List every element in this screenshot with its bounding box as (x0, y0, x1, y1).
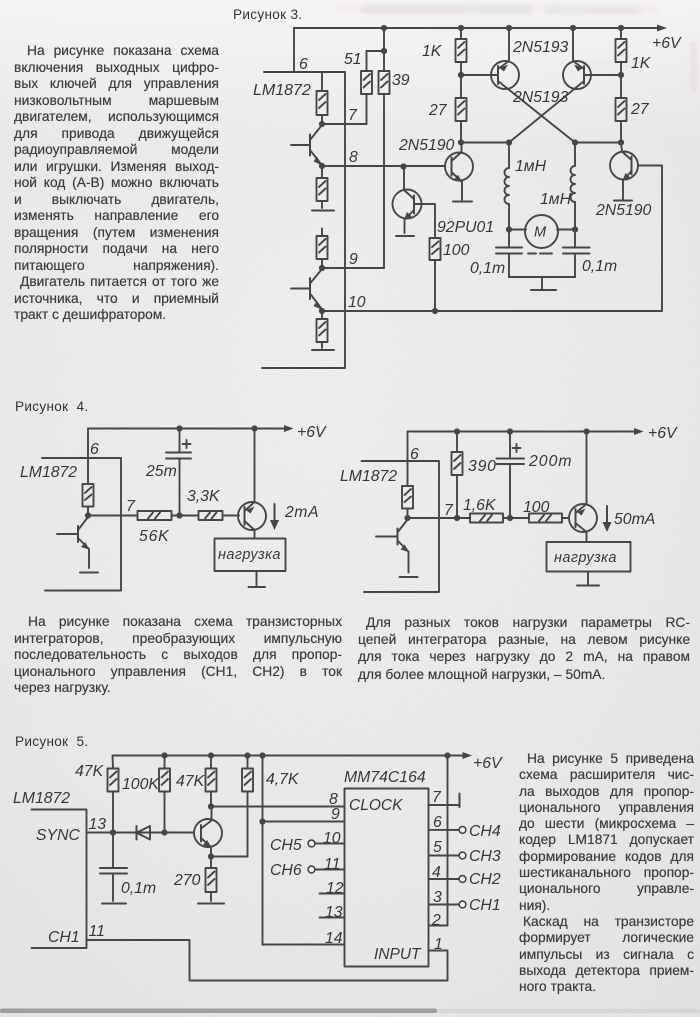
wire pin 5 (429, 855, 459, 857)
load box left (215, 539, 286, 572)
svg-text:2N5190: 2N5190 (595, 202, 652, 219)
node Vcc pin9 (259, 818, 265, 824)
wire motor left (509, 229, 526, 231)
svg-text:13: 13 (89, 816, 107, 833)
node rail 200m (507, 428, 513, 434)
svg-text:CLOCK: CLOCK (349, 797, 403, 814)
transistor Q5 (194, 807, 222, 857)
svg-text:47K: 47K (75, 763, 105, 780)
svg-text:+6V: +6V (652, 35, 682, 52)
node A left (458, 139, 464, 145)
node B2 right (618, 139, 624, 145)
wire 56K to node (172, 515, 198, 517)
node rail Vcc drop (259, 752, 265, 758)
IC LM1872 box outline (42, 458, 121, 591)
wire pin6 drop (87, 429, 89, 485)
svg-text:270: 270 (173, 872, 201, 889)
svg-text:200m: 200m (528, 453, 573, 470)
transistor internal (376, 520, 409, 573)
svg-text:27: 27 (428, 102, 448, 119)
resistor internal R-C (317, 229, 328, 269)
svg-text:6: 6 (433, 814, 442, 831)
wire pin 9 (263, 821, 345, 823)
node rail 25m (176, 425, 182, 431)
resistor 27 right (616, 75, 627, 143)
node 92PU01 collector (400, 163, 406, 169)
node integrator right (507, 515, 513, 521)
node rail 1K left (458, 25, 464, 31)
node rail 4,7K (244, 752, 250, 758)
capacitor 200m (497, 432, 525, 519)
text block: under figure 4 left (14, 614, 342, 697)
node 100/pin10 (432, 308, 438, 314)
svg-text:CH6: CH6 (270, 862, 302, 879)
resistor 390 (452, 432, 463, 519)
wire Vcc drop to pins 9/14 (262, 756, 264, 945)
wire right node row (575, 142, 621, 144)
svg-text:LM1872: LM1872 (13, 790, 70, 807)
svg-text:50mA: 50mA (614, 511, 655, 528)
node 390 bottom (454, 515, 460, 521)
wire pin 10 (322, 310, 662, 312)
svg-text:2: 2 (431, 912, 441, 929)
svg-text:+6V: +6V (473, 755, 503, 772)
svg-text:14: 14 (325, 930, 343, 947)
load box right (547, 542, 631, 572)
caption Рисунок 4. (15, 399, 88, 414)
svg-text:MM74C164: MM74C164 (344, 769, 426, 786)
svg-text:+6V: +6V (297, 424, 327, 441)
resistor 270 (206, 857, 217, 902)
svg-text:7: 7 (432, 789, 442, 806)
wire pin 6 (429, 829, 459, 831)
node 1K/27 left junction (458, 72, 464, 78)
ground internal 2 (312, 349, 334, 351)
diode D1 (137, 826, 151, 840)
svg-text:CH1: CH1 (469, 897, 501, 914)
svg-text:51: 51 (344, 51, 362, 68)
capacitor 0,1m right (563, 230, 590, 278)
resistor 56K (138, 511, 172, 520)
wire pin 7 (408, 517, 471, 519)
svg-text:CH5: CH5 (270, 837, 302, 854)
node rail-39 (381, 25, 387, 31)
wire +6V rail fig4 right (408, 431, 639, 433)
resistor internal R-D (317, 311, 328, 348)
wire rail drop to pin 2 (447, 756, 449, 926)
ground load right (577, 572, 599, 586)
transistor output right (PNP) (569, 432, 597, 543)
+6V arrowhead (657, 25, 667, 32)
resistor 100 (430, 238, 441, 311)
svg-text:4,7K: 4,7K (266, 771, 300, 788)
wire pin 3 (429, 904, 459, 906)
ground 92PU01 (396, 235, 414, 237)
resistor internal R-A (317, 91, 328, 115)
wire +6V rail fig4 left (88, 428, 288, 430)
node pin8 junction (319, 163, 325, 169)
wire left node row (461, 142, 509, 144)
wire +6V rail fig5 (113, 755, 467, 757)
wire pin 8 (322, 165, 445, 167)
svg-text:2N5193: 2N5193 (512, 39, 569, 56)
svg-text:1: 1 (434, 936, 443, 953)
resistor 47K first (108, 756, 119, 833)
svg-text:10: 10 (323, 830, 341, 847)
svg-text:7: 7 (126, 498, 136, 515)
node motor right (572, 226, 578, 232)
svg-text:92PU01: 92PU01 (437, 219, 494, 236)
ground internal (400, 576, 418, 578)
wire internal resistor top lead (321, 72, 323, 91)
svg-text:1K: 1K (631, 55, 652, 72)
wire pin 2 (429, 925, 448, 927)
svg-text:10: 10 (348, 294, 366, 311)
svg-text:0,1m: 0,1m (582, 258, 617, 275)
svg-text:М: М (534, 225, 547, 241)
svg-text:6: 6 (299, 56, 308, 73)
svg-text:3,3K: 3,3K (187, 488, 221, 505)
svg-text:CH3: CH3 (469, 848, 501, 865)
resistor 51 (361, 51, 372, 124)
ground 2N5190 right (614, 200, 632, 202)
svg-text:1мН: 1мН (540, 191, 572, 208)
IC MM74C164 box (345, 789, 429, 967)
svg-text:27: 27 (630, 101, 650, 118)
svg-text:LM1872: LM1872 (340, 468, 397, 485)
wire +6V rail fig3 (294, 27, 661, 29)
svg-text:нагрузка: нагрузка (218, 547, 281, 563)
text block: under figure 4 right (358, 614, 690, 683)
svg-text:CH4: CH4 (469, 823, 501, 840)
resistor 1K left (456, 28, 467, 75)
svg-text:39: 39 (392, 72, 410, 89)
ground internal 1 (312, 210, 334, 212)
svg-text:100: 100 (443, 242, 470, 259)
resistor 4,7K (242, 756, 253, 857)
capacitor 0,1m (100, 833, 127, 902)
svg-text:9: 9 (331, 806, 340, 823)
transistor 92PU01 (393, 167, 436, 239)
ground 270 (198, 903, 224, 905)
svg-text:100K: 100K (122, 776, 160, 793)
wire pin 12 stub (320, 893, 345, 895)
transistor internal Q-A (291, 125, 322, 165)
node rail 390 (454, 428, 460, 434)
svg-text:1мН: 1мН (515, 158, 547, 175)
wire pin 14 (263, 944, 345, 946)
node collector clock (208, 803, 214, 809)
svg-text:13: 13 (325, 904, 343, 921)
ground 0,1m (102, 903, 126, 905)
resistor internal R-B (317, 166, 328, 208)
resistor 100K (159, 756, 170, 833)
svg-text:LM1872: LM1872 (253, 82, 311, 99)
svg-text:6: 6 (90, 441, 99, 458)
svg-text:56K: 56K (139, 528, 170, 545)
svg-text:CH2: CH2 (469, 871, 501, 888)
svg-text:0,1m: 0,1m (121, 880, 156, 897)
+6V arrowhead fig4 left (284, 425, 294, 432)
node A2 left coil top (506, 139, 512, 145)
wire bus 39 lower to pin9 (383, 94, 385, 268)
wire emitter to 4,7K (211, 856, 248, 858)
node 51/39 top junction (381, 48, 387, 54)
wire pin 9 (322, 267, 384, 269)
node B right coil top (572, 139, 578, 145)
svg-text:0,1m: 0,1m (470, 260, 505, 277)
svg-text:2N5190: 2N5190 (398, 137, 455, 154)
svg-text:LM1872: LM1872 (20, 464, 77, 481)
svg-text:11: 11 (324, 856, 340, 873)
svg-text:100: 100 (523, 499, 550, 516)
wire pin 7 (322, 123, 367, 125)
node SYNC 100K (161, 829, 167, 835)
wire pin 7 to rail (429, 804, 460, 806)
wire clock line pin 8 (211, 806, 345, 808)
ghost bleed-through streaks (362, 4, 650, 69)
wire internal R-A bottom lead (321, 115, 323, 124)
node pin7 junction (85, 512, 91, 518)
node rail 47K second (208, 752, 214, 758)
node rail collector right (583, 428, 589, 434)
transistor internal (57, 517, 90, 568)
IC LM1872 box outline (262, 72, 345, 368)
wire pin 4 (429, 878, 459, 880)
capacitor 25m (166, 429, 191, 516)
resistor 27 left (456, 75, 467, 143)
transistor 2N5193 left (461, 28, 575, 143)
node rail 2N5193 right (570, 25, 576, 31)
wire motor right (557, 229, 575, 231)
transistor 2N5193 right (509, 28, 621, 143)
node rail collector left (251, 425, 257, 431)
ground 2N5190 left (453, 201, 472, 203)
terminal CH4 (459, 827, 466, 834)
wire SYNC pin (87, 832, 195, 834)
IC LM1872 box outline (32, 810, 87, 949)
node pin7 junction (404, 515, 410, 521)
node SYNC 47K (110, 829, 116, 835)
wire pin 13 stub (320, 917, 345, 919)
top lightening (0, 0, 700, 140)
transistor internal Q-B (291, 269, 322, 310)
svg-text:3: 3 (433, 889, 442, 906)
transistor 2N5190 left (445, 143, 473, 201)
inductor 1mH left (505, 143, 510, 230)
svg-text:1,6K: 1,6K (463, 497, 497, 514)
ground load left (249, 571, 266, 587)
current arrow 50mA (603, 506, 612, 532)
text block: figure 3 description (14, 43, 219, 324)
svg-text:SYNC: SYNC (36, 827, 80, 844)
svg-text:нагрузка: нагрузка (554, 550, 617, 566)
transistor 2N5190 right (610, 143, 662, 200)
resistor 1K right (616, 28, 627, 75)
node emitter (208, 853, 214, 859)
resistor 1,6K (470, 514, 503, 523)
node motor left (506, 226, 512, 232)
svg-text:CH1: CH1 (48, 929, 80, 946)
resistor 100 (529, 514, 569, 523)
terminal CH5 (308, 840, 315, 847)
current arrow 2mA (270, 504, 279, 530)
resistor 47K second (206, 756, 217, 807)
terminator bar pin 7 (459, 794, 461, 808)
svg-text:47K: 47K (176, 773, 206, 790)
svg-text:7: 7 (444, 502, 454, 519)
wire pin6 drop (407, 432, 409, 487)
svg-text:12: 12 (326, 880, 344, 897)
svg-text:390: 390 (468, 458, 497, 475)
node pin10 junction (319, 308, 325, 314)
+6V arrowhead fig4 right (634, 428, 644, 435)
+6V arrowhead fig5 (463, 752, 473, 759)
terminal CH3 (459, 852, 466, 859)
node rail pin7 (444, 752, 450, 758)
terminal CH1 (459, 901, 466, 908)
node pin9 junction (319, 265, 325, 271)
svg-text:2N5193: 2N5193 (512, 89, 569, 106)
node pin7 junction (319, 121, 325, 127)
wire CH1 to INPUT (87, 940, 448, 981)
ground motor (531, 277, 556, 290)
svg-text:2mA: 2mA (284, 504, 319, 521)
wire pin 6 to rail (293, 28, 295, 72)
svg-text:7: 7 (348, 107, 358, 124)
wire pin 10 (315, 843, 345, 845)
svg-text:4: 4 (432, 864, 441, 881)
node rail 1K right (618, 25, 624, 31)
node integrator left (176, 512, 182, 518)
svg-text:1K: 1K (422, 43, 443, 60)
wire right feedback bus (661, 166, 663, 312)
text block: right of figure 5 (519, 751, 694, 995)
svg-text:5: 5 (433, 839, 442, 856)
transistor output left (PNP) (238, 429, 266, 539)
terminal CH2 (459, 876, 466, 883)
node 1K/27 right junction (618, 72, 624, 78)
svg-text:INPUT: INPUT (374, 946, 422, 963)
resistor 3,3K (199, 511, 240, 520)
svg-text:8: 8 (349, 149, 358, 166)
inductor 1mH right (571, 143, 576, 230)
capacitor 0,1m left (496, 230, 522, 278)
ground internal (80, 572, 98, 574)
svg-text:+6V: +6V (648, 425, 678, 442)
node rail 2N5193 left (506, 25, 512, 31)
resistor internal (83, 484, 94, 516)
motor M (525, 215, 558, 254)
wire 51 top jog (367, 50, 385, 52)
svg-text:25m: 25m (145, 463, 177, 480)
wire capacitor bottoms (509, 276, 575, 278)
resistor 39 (379, 71, 390, 94)
resistor internal (402, 486, 413, 518)
wire pin 7 (88, 515, 138, 517)
svg-text:9: 9 (349, 251, 358, 268)
wire bus 39 upper (383, 28, 385, 71)
terminal CH6 (308, 866, 315, 873)
caption Рисунок 5. (15, 734, 88, 749)
node rail 100K (161, 752, 167, 758)
wire 1,6K to 100 (503, 517, 529, 519)
wire pin 11 (315, 869, 345, 871)
svg-text:11: 11 (89, 923, 105, 940)
IC LM1872 box outline (362, 461, 440, 592)
caption Рисунок 3. (233, 7, 302, 22)
